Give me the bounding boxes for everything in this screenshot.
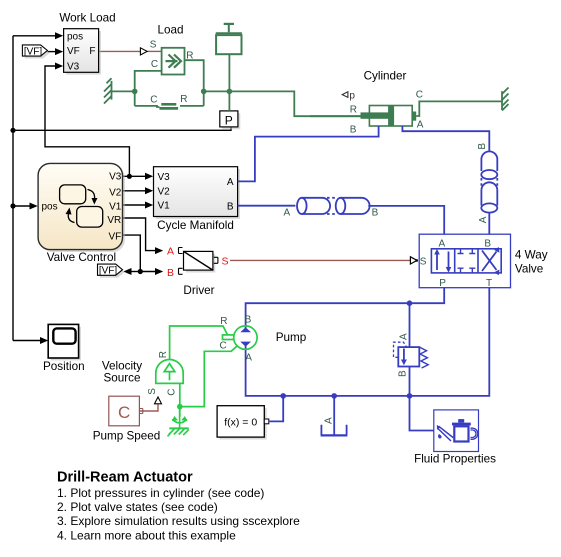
wire pos to Work Load <box>13 35 55 37</box>
node tank junction <box>331 393 337 399</box>
svg-text:A: A <box>284 208 291 219</box>
svg-text:A: A <box>245 352 252 363</box>
svg-text:S: S <box>420 257 427 268</box>
arrowhead V1 <box>145 202 153 209</box>
block Driver <box>167 246 229 279</box>
svg-text:V3: V3 <box>109 172 122 183</box>
wire to fluid properties <box>410 396 434 431</box>
svg-text:V1: V1 <box>158 201 171 212</box>
svg-text:4. Learn more about this examp: 4. Learn more about this example <box>57 528 236 542</box>
tag Goto VF bottom <box>98 264 125 278</box>
wire main mechanical rail <box>204 91 361 116</box>
svg-text:S: S <box>222 256 229 268</box>
svg-text:Position: Position <box>43 360 85 373</box>
svg-text:C: C <box>167 389 178 396</box>
node junction P/trunk <box>10 128 15 133</box>
svg-text:S: S <box>150 40 157 51</box>
node rotational ground junction <box>177 404 183 410</box>
wire relief B to return <box>409 367 411 396</box>
svg-text:Pump: Pump <box>276 331 307 344</box>
arrowhead pos Work Load <box>55 32 63 39</box>
pipe horizontal <box>297 198 370 214</box>
wire V2 net <box>123 190 145 192</box>
svg-text:Valve Control: Valve Control <box>47 251 116 264</box>
svg-text:A: A <box>478 216 489 223</box>
node mass junction <box>227 89 233 95</box>
svg-text:A: A <box>439 239 446 250</box>
svg-text:B: B <box>167 267 174 279</box>
wire pump C loop <box>180 346 237 407</box>
arrowhead Driver B <box>155 268 163 275</box>
label annotation p <box>342 91 355 102</box>
wire VR net to Driver A <box>123 218 155 251</box>
svg-text:C: C <box>220 340 227 351</box>
svg-text:Driver: Driver <box>183 284 214 297</box>
wire cylinder C to wall <box>416 101 502 116</box>
wire V1 net <box>123 204 145 206</box>
wire mass to P sensor <box>228 54 230 111</box>
node junction VF <box>138 269 143 274</box>
svg-text:Load: Load <box>157 24 183 37</box>
svg-text:R: R <box>158 351 169 358</box>
svg-text:V3: V3 <box>158 172 171 183</box>
svg-text:C: C <box>150 94 157 105</box>
svg-text:VF: VF <box>67 46 80 57</box>
svg-text:Source: Source <box>103 372 140 385</box>
svg-text:p: p <box>349 91 355 102</box>
node fx junction <box>280 393 286 399</box>
block relief valve <box>394 342 429 368</box>
svg-text:R: R <box>220 316 227 327</box>
svg-text:B: B <box>350 125 357 136</box>
pump shaft bracket <box>223 335 234 340</box>
arrowhead V3 workload <box>55 63 63 70</box>
svg-text:Fluid Properties: Fluid Properties <box>414 453 496 466</box>
tank symbol <box>321 396 348 436</box>
block 4 Way Valve <box>419 234 510 288</box>
block Position scope <box>48 324 81 360</box>
wire pos to Valve Control <box>13 205 30 207</box>
wire Load R loop <box>185 60 204 106</box>
block Work Load <box>64 29 101 75</box>
arrowhead scope <box>40 337 48 344</box>
wire V3 net <box>45 66 145 176</box>
valve cell2 blocked ports <box>458 249 476 273</box>
arrowhead pos chart <box>30 203 38 210</box>
wire cylinder R <box>310 115 361 117</box>
svg-text:VF: VF <box>109 231 122 242</box>
arrowhead V2 <box>145 187 153 194</box>
node damper left <box>132 89 138 95</box>
wire manifold A to cylinder B <box>238 126 379 181</box>
svg-text:B: B <box>477 143 488 150</box>
arrowhead into VF goto <box>123 268 131 275</box>
tag From VF top <box>22 45 49 59</box>
block Velocity Source <box>156 360 183 384</box>
svg-text:S: S <box>147 388 158 395</box>
svg-text:3. Explore simulation results: 3. Explore simulation results using ssce… <box>57 514 300 528</box>
svg-text:P: P <box>225 114 233 128</box>
pump circle <box>234 326 257 349</box>
svg-text:B: B <box>398 370 409 377</box>
node junction pos chart <box>10 203 15 208</box>
node relief B junction <box>407 393 413 399</box>
wire F to Load S <box>99 50 162 52</box>
svg-text:Cylinder: Cylinder <box>364 70 407 83</box>
pump triangles <box>240 327 251 346</box>
svg-text:B: B <box>227 201 234 212</box>
svg-text:A: A <box>417 120 424 131</box>
arrowhead hollow Valve S <box>410 257 417 264</box>
chart Valve Control <box>38 163 125 252</box>
pipe vertical <box>481 151 497 212</box>
svg-text:2. Plot valve states (see code: 2. Plot valve states (see code) <box>57 500 218 514</box>
block Cylinder <box>361 106 417 127</box>
svg-text:pos: pos <box>67 32 83 43</box>
wire P sensor to trunk <box>13 127 231 130</box>
ground wall left <box>104 78 112 103</box>
wire Load C loop <box>135 71 162 106</box>
svg-text:B: B <box>484 239 491 250</box>
block P sensor <box>220 111 241 129</box>
wire vsrc C down <box>179 383 181 417</box>
ground rotational <box>168 407 189 437</box>
node junction V3 <box>127 174 132 179</box>
block Load source <box>162 48 185 75</box>
svg-text:R: R <box>180 94 187 105</box>
wire fx to return <box>269 396 283 422</box>
svg-text:Valve: Valve <box>515 263 543 276</box>
svg-text:Drill-Ream Actuator: Drill-Ream Actuator <box>57 470 193 486</box>
wire pos trunk vertical <box>12 36 14 341</box>
wire vpipe A to valve B <box>488 213 490 235</box>
block fx solver <box>217 406 269 440</box>
valve cell1 arrows <box>434 249 451 273</box>
svg-text:Cycle Manifold: Cycle Manifold <box>157 219 234 232</box>
wire pos to Position scope <box>13 340 40 342</box>
wire Pump Speed to Velocity Source S <box>140 405 158 412</box>
svg-text:A: A <box>324 417 335 424</box>
svg-text:B: B <box>245 314 252 325</box>
wire pump R to velocity source <box>170 326 228 360</box>
arrowhead V3 manifold <box>145 173 153 180</box>
arrowhead hollow Load S <box>140 48 147 55</box>
svg-text:T: T <box>486 278 492 289</box>
block Mass <box>216 24 242 54</box>
svg-text:Pump Speed: Pump Speed <box>93 430 161 443</box>
wire valve P to pump B <box>246 288 445 323</box>
wire wall to node <box>112 90 135 92</box>
wire cylinder A to vpipe B <box>402 126 489 151</box>
svg-text:C: C <box>416 90 423 101</box>
svg-text:R: R <box>350 105 357 116</box>
svg-text:F: F <box>89 46 95 57</box>
svg-text:pos: pos <box>42 202 58 213</box>
svg-text:C: C <box>151 59 158 70</box>
wire return rail <box>246 288 490 396</box>
node damper right <box>201 89 207 95</box>
block Pump Speed <box>109 396 143 426</box>
svg-text:A: A <box>227 177 234 188</box>
wire Driver S to Valve S <box>230 259 410 261</box>
svg-text:P: P <box>439 278 446 289</box>
svg-text:V2: V2 <box>109 187 122 198</box>
wire From VF to Work Load VF <box>47 51 55 53</box>
svg-text:V1: V1 <box>109 202 122 213</box>
ground wall right <box>502 88 509 111</box>
wire pump A <box>245 344 247 349</box>
svg-text:4 Way: 4 Way <box>515 249 548 262</box>
block Fluid Properties <box>434 410 479 452</box>
svg-text:V2: V2 <box>158 187 171 198</box>
wire pump B <box>245 323 247 331</box>
svg-text:A: A <box>398 333 409 340</box>
arrowhead VF workload <box>55 48 63 55</box>
wire manifold B to pipe A <box>238 205 296 207</box>
svg-text:[VF]: [VF] <box>24 47 43 58</box>
wire relief A stub <box>409 303 411 347</box>
svg-text:B: B <box>372 208 379 219</box>
svg-text:A: A <box>167 246 174 258</box>
svg-text:VR: VR <box>107 215 121 226</box>
node relief A junction <box>407 300 413 306</box>
block Cycle Manifold <box>154 167 241 219</box>
valve cell3 crossed arrows <box>482 247 500 275</box>
damper C R <box>135 104 204 108</box>
svg-text:1. Plot pressures in cylinder: 1. Plot pressures in cylinder (see code) <box>57 486 264 500</box>
wire pipe B to valve A <box>368 206 444 234</box>
svg-text:Work Load: Work Load <box>59 12 115 25</box>
wire VF net <box>123 235 155 271</box>
svg-text:V3: V3 <box>67 61 80 72</box>
arrowhead Driver A <box>155 247 163 254</box>
svg-text:C: C <box>118 403 130 422</box>
svg-text:f(x) = 0: f(x) = 0 <box>224 416 257 428</box>
arrowhead hollow VelSrc S <box>155 397 162 404</box>
svg-text:[VF]: [VF] <box>99 266 118 277</box>
